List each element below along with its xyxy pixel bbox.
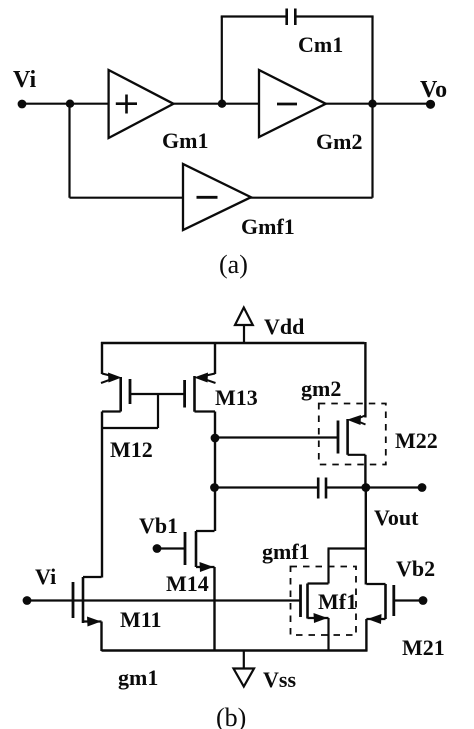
terminal Vb1 dot	[153, 544, 162, 553]
transistor M21 (NMOS mirrored)	[366, 584, 393, 624]
wire gate M12 to gate M13	[130, 393, 185, 395]
terminal Vb2 dot	[419, 596, 428, 605]
svg-text:Gm2: Gm2	[316, 129, 362, 154]
wire Vi line to Mf1 gate	[27, 599, 301, 601]
wire node to M22 gate	[215, 436, 338, 438]
svg-text:M13: M13	[215, 385, 258, 410]
svg-text:Mf1: Mf1	[318, 589, 357, 614]
wire middle rail (M13 drain to M14 drain)	[214, 412, 216, 532]
svg-text:Cm1: Cm1	[298, 32, 343, 57]
transistor M14 (NMOS)	[185, 531, 215, 572]
wire node to compensation cap	[215, 486, 318, 488]
wire node B up to Cm1	[221, 17, 223, 104]
wire M22 drain down to Vout node	[364, 455, 366, 488]
transistor M13 (PMOS)	[185, 373, 216, 412]
wire Gm1 output to Gm2 input	[174, 103, 260, 105]
terminal Vi dot (part b)	[23, 596, 32, 605]
svg-text:gm2: gm2	[301, 376, 341, 401]
wire Vdd top rail	[101, 342, 364, 344]
wire middle rail lower (M14 source to Vss rail)	[213, 567, 215, 651]
node B (Gm1 output junction)	[218, 100, 226, 108]
node M13 drain / M22 gate	[211, 434, 220, 443]
svg-text:M11: M11	[120, 607, 162, 632]
svg-text:Vi: Vi	[35, 564, 56, 589]
node A (input junction)	[66, 100, 74, 108]
wire node A down to feedback line	[68, 104, 70, 198]
wire Vi to Gm1 input	[22, 103, 109, 105]
terminal Vi dot	[18, 100, 27, 109]
wire cap to Vout terminal	[326, 486, 422, 488]
svg-text:Vi: Vi	[13, 67, 36, 93]
svg-text:M12: M12	[110, 437, 153, 462]
transistor M11 (NMOS)	[73, 577, 102, 627]
plus sign inside Gm1	[116, 95, 137, 114]
wire diode connection (gates to M12 drain)	[102, 394, 158, 428]
svg-text:Gm1: Gm1	[162, 128, 208, 153]
power Vss symbol (arrow down)	[234, 651, 255, 687]
node compensation cap left (middle rail)	[210, 483, 219, 492]
op-amp Gm1	[109, 70, 174, 138]
wire Cm1 down to output node	[371, 17, 373, 104]
svg-text:Gmf1: Gmf1	[241, 214, 295, 239]
wire Cm1 top right segment	[295, 15, 373, 17]
svg-text:Vo: Vo	[420, 77, 447, 103]
power Vdd symbol (arrow up)	[235, 308, 253, 345]
wire left rail upper (Vdd to M12 source)	[101, 342, 103, 374]
wire feedback line (Gmf1 path)	[70, 197, 373, 199]
svg-text:gm1: gm1	[118, 665, 158, 690]
dashed box gm2 around M22	[319, 404, 386, 465]
wire right branch (Vdd rail down to M22 source)	[364, 342, 366, 418]
capacitor Cm1 plates	[287, 9, 296, 26]
svg-text:M21: M21	[402, 635, 445, 660]
terminal Vo dot	[426, 100, 435, 109]
wire Vout branch down to M21 drain	[365, 488, 367, 585]
wire M21 gate to Vb2	[394, 599, 423, 601]
minus sign inside Gmf1	[197, 196, 218, 199]
node Vout junction	[361, 483, 370, 492]
dashed box gmf1 around Mf1	[291, 567, 357, 636]
terminal Vout dot	[418, 483, 427, 492]
wire middle rail upper (Vdd to M13 source)	[214, 342, 216, 374]
wire left rail mid (M12 drain down to M11 drain)	[101, 412, 103, 578]
capacitor Cm plates (part b)	[318, 478, 326, 499]
wire Vss bottom rail	[102, 649, 368, 651]
transistor M12 (PMOS)	[101, 373, 130, 412]
wire M21 source down to Vss rail	[365, 619, 367, 651]
svg-text:gmf1: gmf1	[262, 539, 310, 564]
transistor Mf1 (NMOS)	[301, 584, 329, 624]
wire Vb1 to M14 gate	[157, 547, 185, 549]
node C (output junction)	[368, 100, 376, 108]
wire output node down to feedback line	[371, 104, 373, 198]
wire M11 source down to Vss rail	[100, 622, 102, 652]
svg-text:Vdd: Vdd	[264, 314, 304, 339]
wire Cm1 top left segment	[221, 15, 286, 17]
wire Mf1 drain up	[327, 549, 329, 584]
svg-text:Vout: Vout	[374, 505, 419, 530]
wire Gm2 output to Vo	[326, 103, 430, 105]
minus sign inside Gm2	[277, 103, 297, 106]
wire Mf1 drain to Vout branch	[328, 547, 367, 549]
svg-text:(b): (b)	[216, 703, 246, 729]
svg-text:Vb1: Vb1	[139, 513, 178, 538]
transistor M22 (PMOS)	[338, 415, 366, 455]
svg-text:(a): (a)	[219, 250, 248, 279]
svg-text:Vb2: Vb2	[396, 556, 435, 581]
svg-text:M22: M22	[395, 428, 438, 453]
svg-text:Vss: Vss	[263, 667, 296, 692]
wire Mf1 source down to Vss rail	[327, 618, 329, 651]
op-amp Gm2	[259, 70, 326, 137]
op-amp Gmf1	[183, 164, 251, 230]
svg-text:M14: M14	[166, 571, 209, 596]
